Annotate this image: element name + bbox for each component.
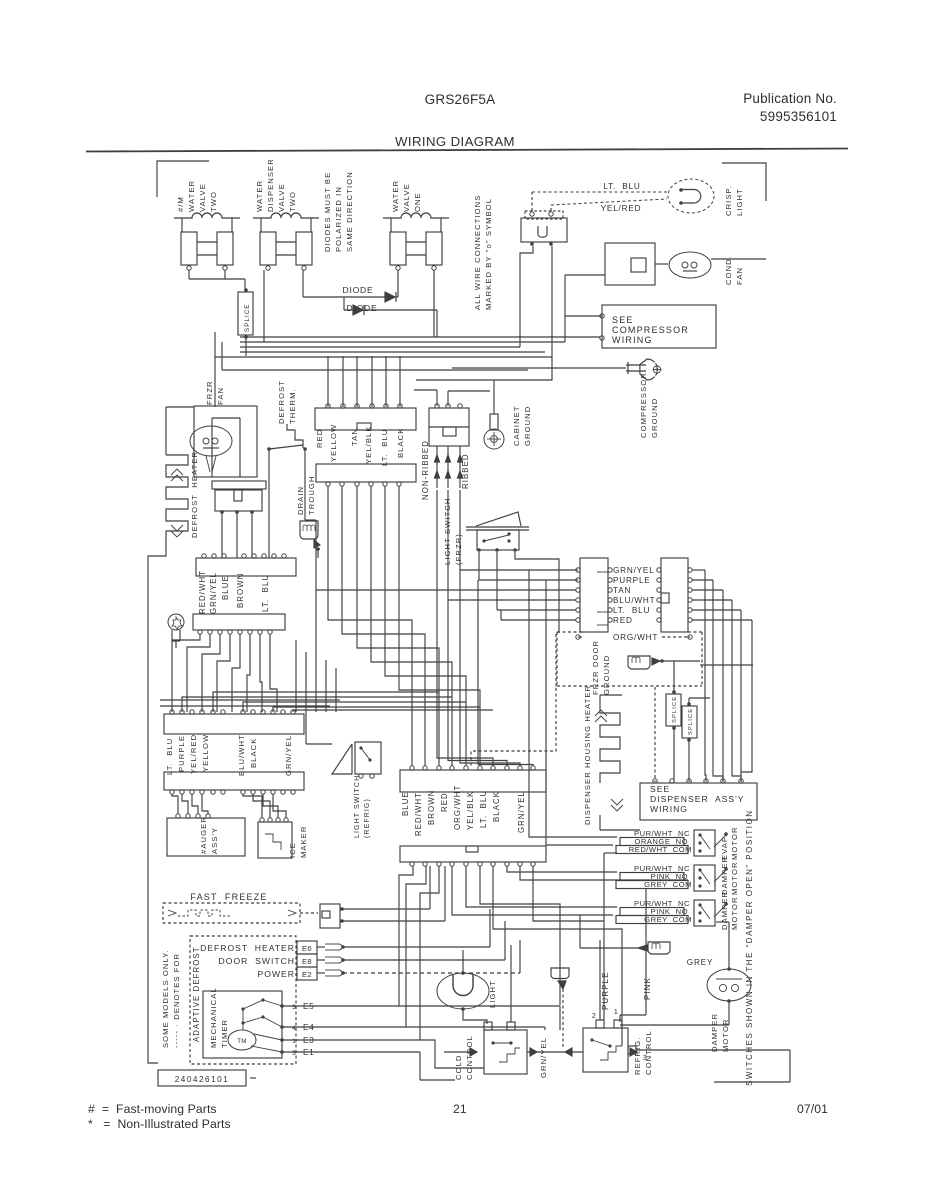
svg-text:TAN: TAN bbox=[613, 586, 631, 595]
svg-text:WATER: WATER bbox=[391, 180, 400, 212]
svg-text:TAN: TAN bbox=[350, 428, 359, 446]
svg-text:SAME DIRECTION: SAME DIRECTION bbox=[345, 171, 354, 252]
svg-text:VALVE: VALVE bbox=[277, 183, 286, 212]
svg-text:MARKED BY "o" SYMBOL: MARKED BY "o" SYMBOL bbox=[484, 198, 493, 310]
svg-text:SPLICE: SPLICE bbox=[244, 303, 251, 332]
svg-text:COLD: COLD bbox=[454, 1055, 463, 1081]
svg-text:BLACK: BLACK bbox=[249, 738, 258, 768]
svg-text:3: 3 bbox=[292, 1050, 296, 1057]
svg-text:COMPRESSOR: COMPRESSOR bbox=[639, 372, 648, 438]
svg-text:BLUE: BLUE bbox=[221, 575, 230, 600]
svg-text:COMPRESSOR: COMPRESSOR bbox=[612, 325, 689, 335]
svg-text:TIMER: TIMER bbox=[220, 1019, 229, 1048]
svg-text:SEE: SEE bbox=[650, 784, 670, 794]
svg-text:LIGHT: LIGHT bbox=[735, 188, 744, 216]
svg-text:YEL/BLK: YEL/BLK bbox=[364, 425, 373, 464]
svg-text:LIGHT: LIGHT bbox=[488, 980, 497, 1008]
svg-text:DIODE: DIODE bbox=[343, 285, 374, 295]
svg-text:LIGHT SWITCH: LIGHT SWITCH bbox=[443, 498, 452, 565]
svg-text:TWO: TWO bbox=[288, 191, 297, 212]
svg-text:E6: E6 bbox=[302, 944, 312, 953]
svg-text:DEFROST HEATER: DEFROST HEATER bbox=[190, 451, 199, 538]
svg-text:FAST FREEZE: FAST FREEZE bbox=[190, 892, 267, 902]
svg-text:WIRING DIAGRAM: WIRING DIAGRAM bbox=[395, 134, 515, 149]
svg-text:WATER: WATER bbox=[255, 180, 264, 212]
svg-text:ADAPTIVE DEFROST: ADAPTIVE DEFROST bbox=[192, 946, 201, 1042]
svg-text:BLUE: BLUE bbox=[401, 791, 410, 816]
svg-text:RED/WHT: RED/WHT bbox=[198, 570, 207, 614]
svg-text:GROUND: GROUND bbox=[523, 406, 532, 446]
svg-text:MECHANICAL: MECHANICAL bbox=[209, 987, 218, 1048]
svg-text:DISPENSER HOUSING HEATER: DISPENSER HOUSING HEATER bbox=[583, 685, 592, 825]
svg-text:GREY: GREY bbox=[687, 958, 713, 967]
svg-text:YEL/RED: YEL/RED bbox=[601, 204, 642, 213]
svg-text:TM: TM bbox=[237, 1038, 247, 1045]
svg-text:DEFROST: DEFROST bbox=[277, 380, 286, 424]
svg-text:FRZR: FRZR bbox=[205, 380, 214, 405]
svg-text:REFRIG.: REFRIG. bbox=[633, 1037, 642, 1076]
svg-text:FAN: FAN bbox=[216, 387, 225, 405]
svg-text:BLU/WHT: BLU/WHT bbox=[613, 596, 655, 605]
svg-text:SWITCHES SHOWN IN THE “DAMPER: SWITCHES SHOWN IN THE “DAMPER OPEN” POSI… bbox=[745, 809, 754, 1086]
svg-text:LT. BLU: LT. BLU bbox=[165, 738, 174, 775]
svg-text:MOTOR: MOTOR bbox=[730, 861, 739, 895]
svg-text:TROUGH: TROUGH bbox=[307, 475, 316, 515]
svg-text:3: 3 bbox=[292, 1004, 296, 1011]
svg-text:FRZR DOOR: FRZR DOOR bbox=[591, 640, 600, 695]
svg-text:DISPENSER: DISPENSER bbox=[266, 158, 275, 212]
svg-text:(REFRIG): (REFRIG) bbox=[364, 798, 371, 838]
svg-text:#/M: #/M bbox=[176, 196, 185, 212]
svg-text:WIRING: WIRING bbox=[612, 335, 653, 345]
svg-text:(FRZR): (FRZR) bbox=[454, 533, 463, 565]
svg-text:BLACK: BLACK bbox=[492, 791, 501, 822]
svg-text:MOTOR: MOTOR bbox=[730, 896, 739, 930]
svg-text:1: 1 bbox=[292, 1038, 296, 1045]
svg-text:* = Non-Illustrated Parts: * = Non-Illustrated Parts bbox=[88, 1117, 231, 1131]
svg-text:GROUND: GROUND bbox=[650, 398, 659, 438]
svg-text:2: 2 bbox=[592, 1013, 596, 1020]
svg-text:LT. BLU: LT. BLU bbox=[603, 182, 640, 191]
svg-text:TWO: TWO bbox=[209, 191, 218, 212]
svg-text:VALVE: VALVE bbox=[402, 183, 411, 212]
svg-text:GROUND: GROUND bbox=[602, 655, 611, 695]
svg-text:YELLOW: YELLOW bbox=[329, 424, 338, 462]
svg-text:LIGHT SWITCH: LIGHT SWITCH bbox=[354, 775, 361, 838]
svg-text:RED: RED bbox=[315, 429, 324, 448]
svg-text:RED: RED bbox=[440, 792, 449, 812]
svg-text:GREY COM: GREY COM bbox=[644, 915, 692, 924]
svg-text:BROWN: BROWN bbox=[427, 790, 436, 825]
svg-text:POWER: POWER bbox=[258, 969, 295, 979]
svg-text:GRN/YEL: GRN/YEL bbox=[517, 791, 526, 833]
svg-text:ALL WIRE CONNECTIONS: ALL WIRE CONNECTIONS bbox=[473, 195, 482, 310]
svg-text:BLACK: BLACK bbox=[396, 428, 405, 458]
svg-text:Publication No.: Publication No. bbox=[743, 91, 837, 106]
svg-text:THERM.: THERM. bbox=[288, 388, 297, 424]
svg-text:SPLICE: SPLICE bbox=[672, 696, 678, 723]
svg-text:DRAIN: DRAIN bbox=[296, 486, 305, 515]
svg-text:E2: E2 bbox=[302, 970, 312, 979]
svg-text:GRN/YEL: GRN/YEL bbox=[284, 735, 293, 776]
svg-text:FAN: FAN bbox=[735, 267, 744, 285]
svg-text:ONE: ONE bbox=[413, 192, 422, 212]
svg-text:CABINET: CABINET bbox=[512, 405, 521, 446]
svg-text:YEL/RED: YEL/RED bbox=[189, 734, 198, 774]
svg-text:CONTROL: CONTROL bbox=[465, 1035, 474, 1080]
svg-text:GREY COM: GREY COM bbox=[644, 880, 692, 889]
svg-text:GRS26F5A: GRS26F5A bbox=[425, 92, 496, 107]
svg-text:# = Fast-moving Parts: # = Fast-moving Parts bbox=[88, 1102, 217, 1116]
svg-text:DIODE: DIODE bbox=[347, 303, 378, 313]
svg-text:5995356101: 5995356101 bbox=[760, 109, 837, 124]
svg-text:#AUGER: #AUGER bbox=[199, 816, 208, 854]
svg-text:DEFROST HEATER: DEFROST HEATER bbox=[200, 943, 295, 953]
svg-text:CRISP.: CRISP. bbox=[724, 185, 733, 216]
svg-text:240426101: 240426101 bbox=[175, 1075, 229, 1084]
svg-text:RED: RED bbox=[613, 616, 633, 625]
svg-text:LT. BLU: LT. BLU bbox=[479, 790, 488, 828]
svg-text:SPLICE: SPLICE bbox=[688, 708, 694, 735]
svg-text:GRN/YEL: GRN/YEL bbox=[613, 566, 655, 575]
svg-text:NON-RIBBED: NON-RIBBED bbox=[421, 440, 430, 500]
svg-text:MAKER: MAKER bbox=[299, 825, 308, 858]
svg-text:RIBBED: RIBBED bbox=[461, 453, 470, 489]
svg-text:RED/WHT: RED/WHT bbox=[414, 792, 423, 836]
svg-text:LT. BLU: LT. BLU bbox=[380, 429, 389, 466]
svg-text:DAMPER: DAMPER bbox=[720, 891, 729, 930]
svg-text:DAMPER: DAMPER bbox=[720, 856, 729, 895]
svg-text:LT. BLU: LT. BLU bbox=[261, 574, 270, 612]
svg-text:PINK: PINK bbox=[643, 977, 652, 1000]
svg-text:ICE: ICE bbox=[288, 842, 297, 858]
svg-text:LT. BLU: LT. BLU bbox=[613, 606, 650, 615]
svg-text:SEE: SEE bbox=[612, 315, 634, 325]
svg-text:4: 4 bbox=[292, 1025, 296, 1032]
svg-text:E8: E8 bbox=[302, 957, 312, 966]
svg-text:DISPENSER ASS'Y: DISPENSER ASS'Y bbox=[650, 794, 745, 804]
svg-text:CONTROL: CONTROL bbox=[644, 1030, 653, 1075]
svg-text:WIRING: WIRING bbox=[650, 804, 688, 814]
svg-text:PURPLE: PURPLE bbox=[613, 576, 651, 585]
svg-text:ORG/WHT: ORG/WHT bbox=[453, 785, 462, 830]
svg-text:----- · DENOTES FOR: ----- · DENOTES FOR bbox=[172, 953, 181, 1048]
svg-text:WATER: WATER bbox=[187, 180, 196, 212]
svg-text:GRN/YEL: GRN/YEL bbox=[209, 572, 218, 614]
svg-text:DAMPER: DAMPER bbox=[710, 1013, 719, 1052]
svg-text:BROWN: BROWN bbox=[236, 573, 245, 608]
svg-text:GRN/YEL: GRN/YEL bbox=[539, 1037, 548, 1078]
svg-text:YELLOW: YELLOW bbox=[201, 734, 210, 772]
svg-text:ASS'Y: ASS'Y bbox=[210, 827, 219, 854]
svg-text:SOME MODELS ONLY.: SOME MODELS ONLY. bbox=[161, 949, 170, 1048]
svg-text:RED/WHT COM: RED/WHT COM bbox=[629, 845, 692, 854]
svg-text:POLARIZED IN: POLARIZED IN bbox=[334, 186, 343, 252]
svg-text:VALVE: VALVE bbox=[198, 183, 207, 212]
svg-text:PURPLE: PURPLE bbox=[177, 735, 186, 772]
svg-text:DOOR SWITCH: DOOR SWITCH bbox=[219, 956, 295, 966]
svg-text:ORG/WHT: ORG/WHT bbox=[613, 633, 658, 642]
svg-text:1: 1 bbox=[614, 1009, 618, 1016]
svg-text:21: 21 bbox=[453, 1102, 467, 1116]
svg-text:YEL/BLK: YEL/BLK bbox=[466, 791, 475, 830]
svg-text:DIODES MUST BE: DIODES MUST BE bbox=[323, 172, 332, 252]
svg-text:PURPLE: PURPLE bbox=[601, 971, 610, 1010]
svg-text:07/01: 07/01 bbox=[797, 1102, 828, 1116]
svg-text:MOTOR: MOTOR bbox=[730, 826, 739, 860]
svg-text:BLU/WHT: BLU/WHT bbox=[237, 734, 246, 776]
